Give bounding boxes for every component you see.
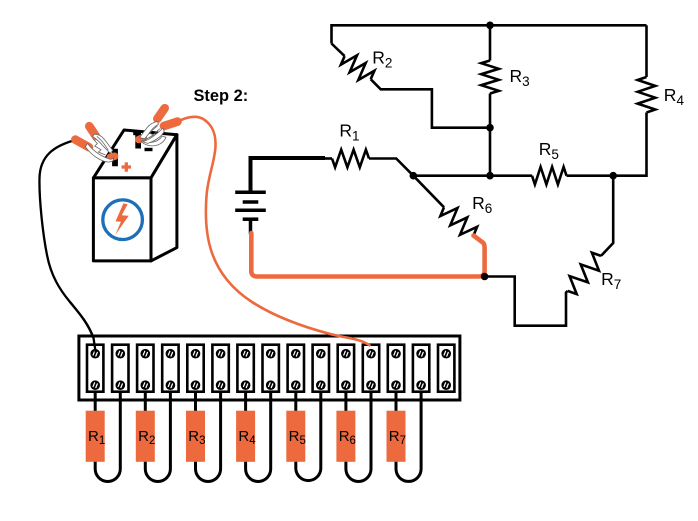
battery logo lightning bolt <box>115 203 128 235</box>
resistor R7 <box>568 253 601 294</box>
wire terminal 5 to resistor R3 <box>194 392 197 411</box>
svg-text:R1: R1 <box>339 120 359 143</box>
wire black lead tip into terminal 1 <box>70 302 96 353</box>
terminal 13 cell <box>388 345 404 392</box>
terminal 11 cell <box>338 345 354 392</box>
terminal 14 cell <box>413 345 429 392</box>
wire top rail <box>332 25 647 43</box>
wire R1 right lead to node A <box>369 159 413 176</box>
svg-text:R7: R7 <box>601 269 621 292</box>
terminal 4 cell <box>162 345 178 392</box>
wire loop resistor R1 to terminal 2 <box>95 392 120 481</box>
label - (negative) <box>145 148 153 151</box>
label + (positive) <box>122 162 132 171</box>
wire terminal 13 to resistor R7 <box>395 392 398 411</box>
resistor R3 (physical) <box>186 411 206 462</box>
wire R4 bottom to bottom-right corner <box>613 113 646 176</box>
terminal 9 cell <box>288 345 304 392</box>
wire battery positive to R1 (thick) <box>251 158 326 191</box>
node F (orange wire / R7 return) <box>481 273 489 281</box>
alligator clip (negative terminal) <box>139 108 178 146</box>
svg-text:R6: R6 <box>472 193 492 216</box>
terminal 2 cell <box>112 345 128 392</box>
resistor R6 <box>440 207 477 235</box>
wire R3 bottom lead <box>489 94 492 176</box>
wire terminal 7 to resistor R4 <box>244 392 247 411</box>
resistor R5 (physical) <box>286 411 306 462</box>
wire right rail (R4 branch verticals) <box>645 25 648 77</box>
wire middle rail node A to R5 <box>413 174 532 177</box>
wire loop resistor R7 to terminal 14 <box>396 392 421 481</box>
wire loop resistor R4 to terminal 8 <box>246 392 271 481</box>
terminal 1 cell <box>87 345 103 392</box>
battery symbol B1 <box>235 192 266 234</box>
wire R3 top lead <box>489 25 492 60</box>
wire orange lead tip into terminal 12 <box>252 302 370 346</box>
terminal 10 cell <box>313 345 329 392</box>
wire terminal 9 to resistor R5 <box>294 392 297 411</box>
node R2/R3 junction <box>486 124 494 132</box>
node top (R3/top rail) <box>486 22 494 30</box>
wire terminal 11 to resistor R6 <box>344 392 347 411</box>
wire loop resistor R6 to terminal 12 <box>346 392 371 481</box>
resistor R2 (physical) <box>136 411 156 462</box>
wire loop resistor R2 to terminal 4 <box>145 392 170 481</box>
wire orange battery clip lead (to terminal 12) <box>179 117 370 346</box>
node A (R1/R5/R6) <box>410 172 418 180</box>
resistor R5 <box>532 167 567 185</box>
svg-text:R5: R5 <box>539 139 559 162</box>
resistor R4 (physical) <box>236 411 256 462</box>
svg-text:R2: R2 <box>372 47 392 70</box>
resistor R2 <box>341 55 375 80</box>
terminal 8 cell <box>263 345 279 392</box>
battery positive terminal post <box>110 149 118 167</box>
battery box top face <box>93 130 176 178</box>
wire loop resistor R3 to terminal 6 <box>196 392 221 481</box>
wire R7 bottom lead to node F <box>485 277 568 326</box>
resistor R1 (physical) <box>86 411 106 462</box>
battery box right face <box>151 135 177 261</box>
wire R2 leads <box>332 44 345 57</box>
alligator clip (positive terminal) <box>75 126 114 162</box>
wire loop resistor R5 to terminal 10 <box>296 392 321 481</box>
node B (R5/R4/R7) <box>609 172 617 180</box>
terminal 3 cell <box>137 345 153 392</box>
terminal 7 cell <box>237 345 253 392</box>
terminal strip body <box>79 336 460 400</box>
wire R5 right lead <box>567 174 614 177</box>
battery logo blue circle <box>103 200 143 240</box>
resistor R7 (physical) <box>387 411 407 462</box>
svg-text:R3: R3 <box>510 66 530 89</box>
wire orange (new connection being made) <box>251 233 484 277</box>
terminal 6 cell <box>212 345 228 392</box>
wire R1 left lead <box>325 157 332 160</box>
battery box front face <box>93 178 151 261</box>
svg-text:R4: R4 <box>664 85 685 108</box>
battery negative terminal post <box>133 131 141 149</box>
wire R7 top lead <box>601 176 613 256</box>
resistor R1 <box>332 150 369 168</box>
resistor R4 <box>638 77 656 113</box>
node R3 bottom / middle rail <box>486 172 494 180</box>
terminal 5 cell <box>187 345 203 392</box>
terminal 15 cell <box>438 345 454 392</box>
resistor R6 (physical) <box>336 411 356 462</box>
resistor R3 <box>481 61 499 94</box>
wire R6 top lead (diagonal) <box>413 176 444 208</box>
wire terminal 3 to resistor R2 <box>144 392 147 411</box>
svg-text:Step 2:: Step 2: <box>194 87 249 105</box>
terminal 12 cell <box>363 345 379 392</box>
wire black battery clip lead (to terminal 1) <box>39 141 95 353</box>
wire terminal 1 to resistor R1 <box>94 392 97 411</box>
